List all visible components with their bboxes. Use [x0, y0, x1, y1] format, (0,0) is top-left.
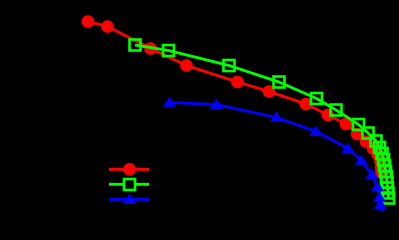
legend green sample [109, 179, 149, 190]
wire blue series line [170, 103, 383, 212]
legend blue sample [109, 193, 149, 203]
wire red series line [88, 22, 382, 173]
node blue markers [163, 97, 387, 209]
legend red sample [109, 163, 149, 176]
wire green series line [135, 45, 389, 198]
node red markers [82, 15, 388, 179]
node green markers [130, 40, 395, 204]
